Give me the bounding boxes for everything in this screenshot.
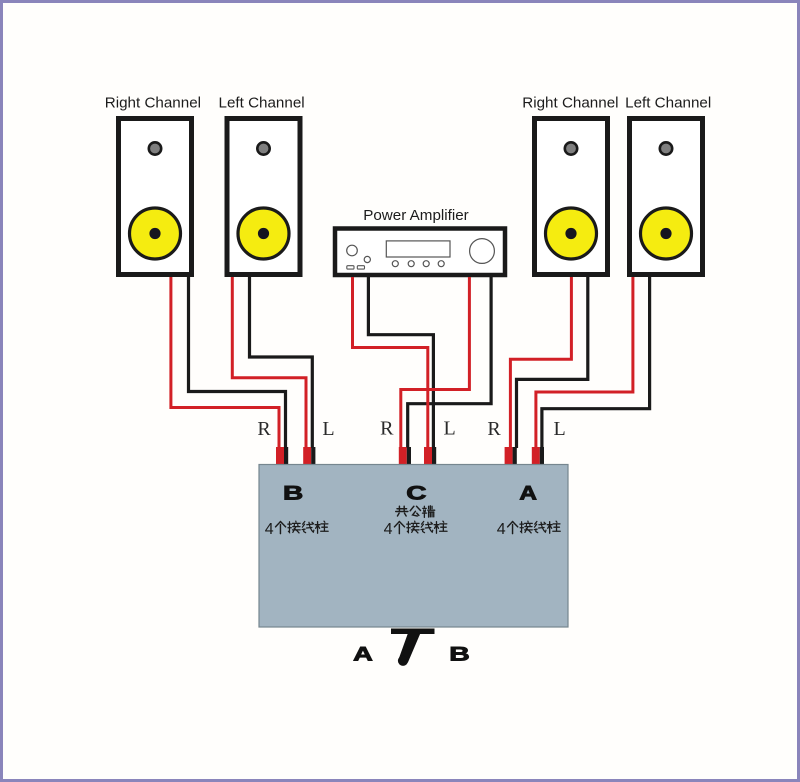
svg-text:R: R — [380, 418, 394, 440]
svg-text:A: A — [353, 644, 373, 665]
svg-text:4: 4 — [265, 521, 274, 538]
svg-text:B: B — [449, 643, 470, 665]
svg-text:4: 4 — [497, 521, 506, 538]
svg-text:C: C — [406, 482, 426, 504]
svg-text:Power Amplifier: Power Amplifier — [363, 207, 469, 224]
svg-text:4: 4 — [384, 521, 393, 538]
svg-text:R: R — [487, 418, 501, 440]
svg-text:L: L — [322, 418, 334, 440]
svg-text:B: B — [283, 482, 303, 504]
svg-text:R: R — [257, 418, 271, 440]
svg-text:L: L — [553, 418, 565, 440]
svg-text:Right Channel: Right Channel — [522, 94, 618, 111]
svg-text:Right Channel: Right Channel — [105, 94, 201, 111]
svg-text:L: L — [443, 418, 455, 440]
svg-text:Left Channel: Left Channel — [625, 94, 711, 111]
svg-text:A: A — [519, 482, 537, 504]
svg-text:Left Channel: Left Channel — [219, 94, 305, 111]
